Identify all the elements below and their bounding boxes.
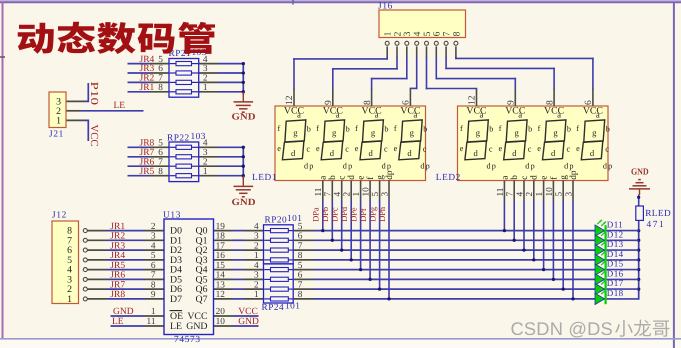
- U13 pin numbers D1/Q1: [151, 232, 225, 242]
- wire J21 pin3 to net P10: [66, 83, 88, 101]
- connector J21: [49, 92, 66, 128]
- svg-text:b: b: [489, 125, 493, 134]
- svg-text:1: 1: [535, 192, 545, 197]
- svg-text:8: 8: [158, 83, 163, 93]
- svg-text:1: 1: [254, 290, 259, 300]
- U13 pin numbers D0/Q0: [151, 222, 225, 232]
- wire GND3 to RLED: [637, 195, 640, 207]
- svg-text:dp: dp: [564, 162, 575, 171]
- net label JR4 / pins: [140, 55, 208, 65]
- wire JR3 (J12 pin6 to U13 D2): [87, 249, 164, 251]
- LED1 segment pin c (pin 4): [333, 176, 348, 201]
- wire U13 Q3 to RP20: [214, 259, 264, 261]
- svg-text:1: 1: [203, 83, 208, 93]
- LED1 segment pin g (pin 5): [371, 175, 386, 201]
- resistor network RP21 (103): [169, 59, 199, 98]
- svg-text:2: 2: [254, 280, 259, 290]
- wire JR5 to RP22: [128, 175, 170, 177]
- U13 pin numbers D3/Q3: [151, 251, 225, 261]
- RP20 pin numbers row 1: [254, 222, 303, 232]
- wire J16 pin2 to LED digit common: [333, 46, 397, 88]
- wire JR8 (J12 pin1 to U13 D7): [87, 298, 164, 300]
- svg-text:b: b: [423, 125, 427, 134]
- wire segment bus row 4 (RP2x pin to D14): [294, 259, 605, 261]
- svg-text:12: 12: [285, 95, 295, 105]
- wire RP21 pin2 to GND rail: [199, 81, 244, 83]
- svg-text:8: 8: [298, 290, 303, 300]
- wire D17 cathode to bus: [607, 288, 639, 290]
- wire net GND to U13 OE pin1: [111, 315, 165, 317]
- wire U13 Q6 to RP24: [214, 288, 264, 290]
- svg-text:DPa: DPa: [312, 207, 321, 222]
- wire D18 cathode to bus: [607, 298, 639, 300]
- svg-text:19: 19: [216, 222, 226, 232]
- wire RP22 pin1 to GND rail: [199, 175, 244, 177]
- wire LED2 segment d vertical: [532, 201, 535, 262]
- wire U13 VCC pin20 to net VCC: [214, 315, 259, 317]
- svg-text:D7: D7: [170, 294, 182, 305]
- U13 pin numbers D5/Q5: [151, 271, 225, 281]
- svg-text:e: e: [499, 144, 503, 153]
- svg-text:GND: GND: [232, 111, 256, 122]
- svg-text:e: e: [576, 144, 580, 153]
- svg-text:c: c: [489, 144, 493, 153]
- net label JR3 / pins: [140, 64, 208, 74]
- wire LED1 segment d vertical: [350, 201, 353, 262]
- wire JR7 to RP22: [128, 156, 170, 158]
- svg-text:3: 3: [151, 232, 156, 242]
- wire J21 pin2 to net LE: [66, 110, 144, 112]
- svg-text:P10: P10: [88, 82, 100, 106]
- svg-text:12: 12: [468, 95, 478, 105]
- wire J16 pin6 to LED digit common: [436, 46, 515, 88]
- LED1 segment pin d (pin 2): [343, 175, 358, 201]
- wire RP22 pin3 to GND rail: [199, 156, 244, 158]
- svg-text:1: 1: [67, 294, 72, 305]
- wire LED2 segment a vertical: [503, 201, 506, 233]
- svg-text:5: 5: [298, 261, 303, 271]
- svg-text:a: a: [500, 176, 510, 180]
- svg-text:e: e: [460, 144, 464, 153]
- svg-text:4: 4: [254, 261, 259, 271]
- wire segment bus row 2 (RP2x pin to D12): [294, 239, 605, 241]
- svg-text:e: e: [537, 144, 541, 153]
- svg-text:DPe: DPe: [349, 207, 358, 222]
- svg-text:3: 3: [564, 192, 574, 197]
- svg-text:15: 15: [216, 261, 226, 271]
- svg-text:g: g: [293, 127, 298, 137]
- svg-text:11: 11: [496, 187, 506, 196]
- wire LED2 segment g vertical: [562, 201, 565, 291]
- svg-text:c: c: [567, 144, 571, 153]
- svg-text:RP24: RP24: [262, 303, 285, 313]
- wire U13 GND pin10 to net GND: [214, 325, 259, 327]
- wire D14 cathode to bus: [607, 259, 639, 261]
- wire J21 pin1 to net VCC: [66, 120, 88, 141]
- LED1 segment pin f (pin 10): [362, 176, 377, 201]
- svg-text:JR5: JR5: [140, 167, 155, 177]
- LED1 digit 1 (common pin 12): [277, 89, 314, 171]
- svg-text:f: f: [278, 124, 281, 133]
- svg-text:f: f: [538, 124, 541, 133]
- svg-text:D13: D13: [607, 239, 624, 249]
- U13 pin numbers D2/Q2: [151, 241, 225, 251]
- svg-text:RP22: RP22: [167, 134, 190, 144]
- svg-text:2: 2: [151, 222, 156, 232]
- svg-text:d: d: [512, 148, 517, 158]
- LED2 segment pin d (pin 2): [525, 175, 540, 201]
- svg-text:JR1: JR1: [110, 222, 125, 232]
- label RP20 101: [265, 214, 303, 225]
- svg-text:GND: GND: [232, 197, 256, 208]
- net label JR1 / pins: [140, 83, 208, 93]
- LED2 digit 4 (common pin 6): [576, 89, 613, 171]
- LED2 digit 1 (common pin 12): [460, 89, 497, 171]
- svg-text:16: 16: [216, 251, 226, 261]
- net label JR6 / pins: [140, 157, 208, 167]
- wire U13 Q4 to RP24: [214, 269, 264, 271]
- wire J16 pin4 to LED digit common: [410, 46, 416, 88]
- svg-text:VCC: VCC: [583, 105, 603, 116]
- svg-text:JR5: JR5: [110, 261, 125, 271]
- svg-text:a: a: [336, 109, 340, 119]
- wire JR7 (J12 pin2 to U13 D6): [87, 288, 164, 290]
- wire LED1 segment e vertical: [359, 201, 362, 272]
- svg-text:1: 1: [56, 116, 61, 127]
- svg-text:a: a: [413, 109, 417, 119]
- svg-text:b: b: [567, 125, 571, 134]
- svg-text:1: 1: [254, 251, 259, 261]
- svg-text:a: a: [557, 109, 561, 119]
- svg-text:D17: D17: [607, 278, 624, 288]
- svg-text:dp: dp: [487, 162, 498, 171]
- svg-text:RP20: RP20: [265, 215, 288, 225]
- wire LED1 segment a vertical: [321, 201, 324, 233]
- LED2 segment pin dp (pin 3): [564, 170, 579, 200]
- svg-text:g: g: [371, 127, 376, 137]
- svg-text:LE: LE: [170, 321, 182, 332]
- svg-text:8: 8: [545, 100, 555, 105]
- wire JR2 (J12 pin7 to U13 D1): [87, 239, 164, 241]
- wire LED1 segment g vertical: [378, 201, 381, 291]
- svg-text:471: 471: [647, 220, 666, 230]
- wire segment bus row 7 (RP2x pin to D17): [294, 288, 605, 290]
- svg-text:e: e: [357, 176, 367, 180]
- net label JR8 / pins: [140, 139, 208, 149]
- wire J16 pin7 to LED digit common: [446, 46, 554, 88]
- svg-text:GND: GND: [113, 307, 134, 317]
- wire segment bus row 3 (RP2x pin to D13): [294, 249, 605, 251]
- svg-text:JR3: JR3: [110, 241, 125, 251]
- svg-text:JR2: JR2: [110, 232, 125, 242]
- svg-text:6: 6: [402, 100, 412, 105]
- svg-text:3: 3: [203, 148, 208, 158]
- svg-text:VCC: VCC: [284, 105, 304, 116]
- svg-text:2: 2: [254, 241, 259, 251]
- svg-text:a: a: [375, 109, 379, 119]
- svg-text:d: d: [551, 148, 556, 158]
- svg-text:8: 8: [151, 280, 156, 290]
- svg-text:VCC: VCC: [400, 105, 420, 116]
- wire J16 pin8 to LED digit common: [456, 46, 593, 88]
- svg-text:8: 8: [298, 251, 303, 261]
- svg-text:c: c: [528, 144, 532, 153]
- svg-text:VCC: VCC: [362, 105, 382, 116]
- svg-text:c: c: [384, 144, 388, 153]
- svg-text:f: f: [316, 124, 319, 133]
- svg-text:a: a: [518, 109, 522, 119]
- wire net LE to U13 LE pin11: [111, 325, 165, 327]
- watermark CSDN @DS小龙哥: [511, 318, 670, 339]
- svg-text:D11: D11: [607, 220, 623, 230]
- display LED2 (4-digit 7-segment): [458, 89, 614, 201]
- U13 pin numbers D7/Q7: [151, 290, 225, 300]
- svg-text:e: e: [394, 144, 398, 153]
- ground symbol GND (RLED): [629, 180, 650, 195]
- svg-text:DPb: DPb: [321, 207, 330, 222]
- svg-text:g: g: [515, 127, 520, 137]
- svg-text:c: c: [345, 144, 349, 153]
- svg-text:6: 6: [298, 232, 303, 242]
- LED diode D18: [595, 288, 606, 304]
- wire segment bus row 5 (RP2x pin to D15): [294, 269, 605, 271]
- svg-text:g: g: [332, 127, 337, 137]
- wire JR6 (J12 pin3 to U13 D5): [87, 278, 164, 280]
- LED diode D15: [595, 259, 606, 275]
- display LED1 (4-digit 7-segment): [275, 89, 431, 201]
- svg-text:6: 6: [151, 261, 156, 271]
- resistor network RP22 (103): [169, 142, 199, 182]
- svg-text:3: 3: [254, 271, 259, 281]
- wire RLED to bus: [638, 220, 640, 230]
- wire JR2 to RP21: [128, 81, 170, 83]
- svg-text:6: 6: [584, 100, 594, 105]
- net label JR7 / pins: [140, 148, 208, 158]
- svg-text:f: f: [576, 124, 579, 133]
- LED2 segment pin g (pin 5): [555, 175, 570, 201]
- svg-text:a: a: [480, 109, 484, 119]
- svg-text:dp: dp: [420, 162, 431, 171]
- wire RP21 pin4 to GND rail: [199, 63, 244, 65]
- svg-text:VCC: VCC: [544, 105, 564, 116]
- svg-text:20: 20: [216, 307, 226, 317]
- svg-text:b: b: [307, 125, 311, 134]
- svg-text:e: e: [540, 176, 550, 180]
- svg-text:d: d: [330, 148, 335, 158]
- wire JR3 to RP21: [128, 72, 170, 74]
- wire RP22 common to GND: [242, 146, 245, 178]
- wire RP22 pin4 to GND rail: [199, 146, 244, 148]
- net label JR5 / pins: [140, 167, 208, 177]
- svg-text:7: 7: [298, 241, 303, 251]
- svg-text:f: f: [394, 124, 397, 133]
- svg-text:DPf: DPf: [359, 208, 368, 222]
- svg-text:e: e: [316, 144, 320, 153]
- LED2 digit 2 (common pin 9): [499, 89, 536, 171]
- svg-text:6: 6: [298, 271, 303, 281]
- svg-text:a: a: [319, 176, 329, 180]
- label RP24 101: [262, 302, 301, 313]
- svg-text:10: 10: [362, 187, 372, 197]
- svg-text:JR4: JR4: [110, 251, 125, 261]
- svg-text:8: 8: [363, 100, 373, 105]
- svg-text:g: g: [476, 127, 481, 137]
- svg-text:5: 5: [298, 222, 303, 232]
- svg-text:D16: D16: [607, 268, 624, 278]
- title 动态数码管: [18, 22, 215, 54]
- svg-text:D14: D14: [607, 249, 624, 259]
- svg-text:g: g: [559, 175, 569, 180]
- wire D12 cathode to bus: [607, 239, 639, 241]
- svg-text:9: 9: [507, 100, 517, 105]
- svg-text:4: 4: [254, 222, 259, 232]
- wire JR1 to RP21: [128, 91, 170, 93]
- wire RP21 pin3 to GND rail: [199, 72, 244, 74]
- svg-text:LE: LE: [112, 317, 124, 327]
- svg-text:D15: D15: [607, 259, 624, 269]
- svg-text:d: d: [530, 175, 540, 180]
- net label JR2 / pins: [140, 74, 208, 84]
- svg-text:D18: D18: [607, 288, 624, 298]
- U13 pin numbers D6/Q6: [151, 280, 225, 290]
- svg-text:GND: GND: [631, 167, 649, 177]
- svg-text:9: 9: [324, 100, 334, 105]
- svg-text:11: 11: [147, 317, 156, 327]
- LED1 digit 2 (common pin 9): [316, 89, 353, 171]
- wire LED2 segment e vertical: [542, 201, 545, 272]
- wire LED2 segment dp vertical: [571, 201, 574, 301]
- svg-text:GND: GND: [238, 317, 259, 327]
- svg-text:J12: J12: [52, 211, 67, 221]
- svg-text:J16: J16: [378, 1, 393, 11]
- connector J12: [52, 221, 87, 305]
- svg-text:GND: GND: [186, 321, 207, 332]
- LED1 segment pin a (pin 11): [314, 176, 329, 201]
- LED2 segment pin b (pin 7): [506, 175, 521, 201]
- resistor network RP24 (101): [264, 264, 294, 303]
- svg-text:1: 1: [203, 167, 208, 177]
- svg-text:4: 4: [151, 241, 156, 251]
- svg-text:CSDN @DS: CSDN @DS: [511, 318, 613, 339]
- LED1 digit 3 (common pin 8): [355, 89, 392, 171]
- svg-text:14: 14: [216, 271, 226, 281]
- wire diode cathode bus: [637, 229, 640, 299]
- svg-text:11: 11: [314, 187, 324, 196]
- svg-text:3: 3: [254, 232, 259, 242]
- svg-text:101: 101: [285, 302, 300, 312]
- svg-text:12: 12: [216, 290, 226, 300]
- svg-text:e: e: [277, 144, 281, 153]
- svg-text:4: 4: [333, 192, 343, 197]
- svg-text:f: f: [460, 124, 463, 133]
- svg-text:b: b: [528, 125, 532, 134]
- svg-text:VCC: VCC: [505, 105, 525, 116]
- svg-text:c: c: [423, 144, 427, 153]
- svg-text:74573: 74573: [174, 335, 201, 345]
- ground symbol GND (RP21): [234, 92, 254, 112]
- svg-text:dp: dp: [525, 162, 536, 171]
- svg-text:1: 1: [151, 307, 156, 317]
- LED diode D16: [595, 269, 606, 285]
- wire RP21 common to GND: [242, 62, 245, 94]
- svg-text:1: 1: [352, 192, 362, 197]
- svg-text:18: 18: [216, 232, 226, 242]
- svg-text:c: c: [520, 176, 530, 180]
- svg-text:c: c: [605, 144, 609, 153]
- svg-text:10: 10: [545, 187, 555, 197]
- LED1 segment pin dp (pin 3): [380, 170, 395, 200]
- svg-text:8: 8: [451, 31, 462, 36]
- svg-text:dp: dp: [343, 162, 354, 171]
- wire JR4 to RP21: [128, 63, 170, 65]
- svg-text:2: 2: [525, 192, 535, 197]
- latch U13 74573: [164, 219, 214, 335]
- LED2 segment pin a (pin 11): [496, 176, 511, 201]
- wire JR6 to RP22: [128, 165, 170, 167]
- wire LED1 segment c vertical: [340, 201, 343, 252]
- connector J16: [379, 10, 466, 45]
- svg-text:d: d: [473, 148, 478, 158]
- wire segment bus row 8 (RP2x pin to D18): [294, 298, 605, 300]
- U13 control pin numbers and nets: [112, 307, 259, 327]
- svg-text:6: 6: [158, 148, 163, 158]
- svg-text:9: 9: [151, 290, 156, 300]
- svg-text:DPh: DPh: [378, 206, 387, 222]
- svg-text:DPd: DPd: [340, 206, 349, 222]
- svg-text:D12: D12: [607, 229, 624, 239]
- wire LED1 segment b vertical: [331, 201, 334, 242]
- ground symbol GND (RP22): [234, 176, 254, 197]
- svg-text:g: g: [553, 127, 558, 137]
- svg-text:g: g: [410, 127, 415, 137]
- svg-text:10: 10: [216, 317, 226, 327]
- svg-text:b: b: [384, 125, 388, 134]
- LED2 digit 3 (common pin 8): [537, 89, 574, 171]
- RP24 pin numbers row 1: [254, 261, 303, 271]
- LED diode D11: [595, 220, 606, 236]
- svg-text:b: b: [346, 125, 350, 134]
- resistor network RP20 (101): [264, 225, 294, 264]
- wire J16 pin1 to LED digit common: [294, 46, 387, 88]
- wire LED2 segment f vertical: [552, 201, 555, 282]
- LED2 segment pin e (pin 1): [535, 176, 550, 201]
- svg-text:JR1: JR1: [140, 83, 155, 93]
- svg-text:4: 4: [515, 192, 525, 197]
- svg-text:dp: dp: [569, 170, 579, 180]
- wire segment bus row 1 (RP2x pin to D11): [294, 230, 605, 232]
- wire RP21 pin1 to GND rail: [199, 91, 244, 93]
- svg-text:5: 5: [151, 251, 156, 261]
- wire U13 Q5 to RP24: [214, 278, 264, 280]
- LED1 segment pin b (pin 7): [324, 175, 339, 201]
- svg-text:dp: dp: [385, 170, 395, 180]
- wire LED2 segment b vertical: [513, 201, 516, 242]
- svg-text:DPg: DPg: [368, 206, 377, 222]
- LED diode D12: [595, 230, 606, 246]
- svg-text:dp: dp: [603, 162, 614, 171]
- wire U13 Q7 to RP24: [214, 298, 264, 300]
- LED2 segment pin f (pin 10): [545, 176, 560, 201]
- LED2 segment pin c (pin 4): [515, 176, 530, 201]
- svg-text:JR8: JR8: [110, 290, 125, 300]
- svg-text:c: c: [338, 176, 348, 180]
- svg-text:RLED: RLED: [645, 209, 671, 219]
- svg-text:13: 13: [216, 280, 226, 290]
- svg-text:VCC: VCC: [466, 105, 486, 116]
- svg-text:dp: dp: [304, 162, 315, 171]
- LED diode D14: [595, 249, 606, 265]
- svg-text:8: 8: [158, 167, 163, 177]
